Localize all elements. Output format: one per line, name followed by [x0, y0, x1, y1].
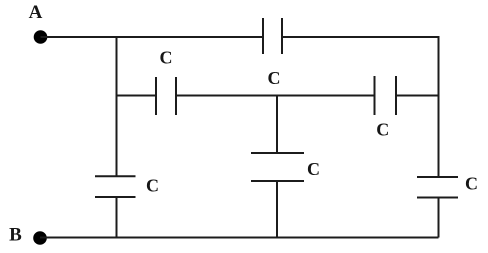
wire: center vertical lower [276, 181, 278, 238]
wire: top right segment [282, 36, 439, 38]
terminal B [33, 231, 47, 245]
capacitor C4 (center) [251, 153, 304, 181]
wire: right vertical lower [438, 198, 440, 238]
capacitor C1 (top) [263, 18, 282, 54]
svg-text:C: C [307, 159, 320, 179]
capacitor C2 (middle left) [156, 77, 176, 115]
wire: middle row right stub [396, 95, 439, 97]
svg-text:B: B [9, 225, 22, 246]
wire: left vertical upper [116, 36, 118, 176]
svg-text:C: C [146, 176, 159, 196]
capacitor C3 (middle right) [375, 76, 397, 115]
svg-text:C: C [465, 174, 478, 194]
wire: top from A to C1 [41, 36, 264, 38]
capacitor C6 (right) [417, 177, 458, 198]
capacitor C5 (bottom left) [95, 176, 136, 197]
svg-text:A: A [29, 2, 43, 23]
wire: bottom from B to right [40, 237, 439, 239]
wire: left vertical lower [116, 197, 118, 238]
svg-text:C: C [160, 48, 173, 68]
svg-text:C: C [376, 120, 389, 140]
wire: center vertical upper [276, 96, 278, 154]
wire: middle row center segment [176, 95, 375, 97]
svg-text:C: C [268, 68, 281, 88]
terminal A [34, 30, 48, 44]
wire: middle row left stub [117, 95, 157, 97]
wire: right vertical upper [438, 36, 440, 177]
